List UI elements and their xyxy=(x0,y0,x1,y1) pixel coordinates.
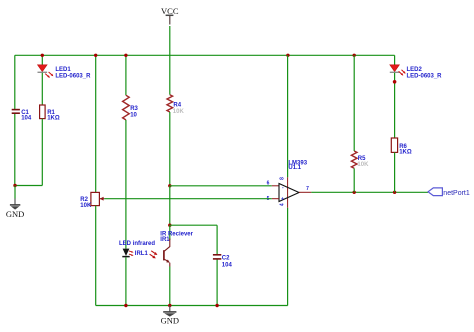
svg-text:4: 4 xyxy=(280,203,286,206)
wire column C1 branch xyxy=(14,55,16,185)
svg-text:GND: GND xyxy=(161,316,179,326)
junction rail C2 xyxy=(215,304,218,307)
transistor IR1 phototransistor xyxy=(150,232,194,267)
wire C2 branch xyxy=(216,225,218,305)
wire output xyxy=(311,191,428,193)
wire top rail VCC xyxy=(15,54,395,56)
svg-text:LED1: LED1 xyxy=(55,67,71,73)
wire R2 branch top xyxy=(95,55,97,192)
wire LED1 to R1 xyxy=(41,73,43,105)
wire LED2 branch top xyxy=(394,55,396,65)
wire IRL1 bottom xyxy=(125,257,127,305)
svg-text:VCC: VCC xyxy=(161,6,179,16)
capacitor C2 xyxy=(213,255,233,268)
wire R2 wiper to pin5 xyxy=(104,198,271,200)
svg-text:netPort1: netPort1 xyxy=(443,190,470,197)
svg-text:R3: R3 xyxy=(130,106,138,112)
wire R3 to IRL1 xyxy=(125,120,127,249)
svg-text:IRL1: IRL1 xyxy=(135,251,149,257)
svg-text:10: 10 xyxy=(130,113,137,119)
resistor R5 xyxy=(351,151,369,168)
svg-text:R5: R5 xyxy=(358,156,366,162)
svg-text:7: 7 xyxy=(306,186,309,192)
pin 5 stub xyxy=(272,198,279,200)
svg-text:U1.1: U1.1 xyxy=(288,165,301,171)
power flag VCC xyxy=(161,6,179,25)
svg-text:+: + xyxy=(281,197,284,203)
LED LED1 xyxy=(38,65,92,80)
svg-text:IR1: IR1 xyxy=(160,237,170,243)
wire op-amp pin6 xyxy=(170,185,272,187)
pin 7 stub xyxy=(299,191,311,193)
LED infrared IRL1 xyxy=(119,241,155,257)
junction rail op-amp power xyxy=(286,54,289,57)
svg-text:LED-0603_R: LED-0603_R xyxy=(55,74,91,80)
wire emitter to rail xyxy=(169,267,171,306)
wire R5 branch top xyxy=(353,55,355,151)
svg-text:R4: R4 xyxy=(173,102,181,108)
junction collector node xyxy=(168,224,171,227)
svg-text:LED2: LED2 xyxy=(407,67,423,73)
junction rail R5 xyxy=(353,54,356,57)
svg-text:104: 104 xyxy=(222,262,233,268)
wire LED1/R1 branch top xyxy=(41,55,43,65)
op-amp pins 8 and 4 xyxy=(287,177,289,208)
wire node to collector node xyxy=(169,186,171,225)
junction rail R2 xyxy=(94,54,97,57)
svg-text:GND: GND xyxy=(6,209,24,219)
resistor R4 xyxy=(167,95,184,115)
wire R3 branch top xyxy=(125,55,127,95)
ground GND left xyxy=(6,186,24,219)
svg-text:10K: 10K xyxy=(357,162,369,168)
wire R4 to node xyxy=(169,112,171,186)
wire R4 branch top xyxy=(169,55,171,94)
wire bottom rail xyxy=(96,305,288,307)
wire gnd horizontal xyxy=(15,185,43,187)
junction output R5 xyxy=(353,191,356,194)
wire VCC stem xyxy=(169,26,171,55)
wire R1 bottom xyxy=(41,119,43,186)
junction left gnd xyxy=(13,184,16,187)
net port netPort1 xyxy=(428,188,470,197)
potentiometer R2 xyxy=(80,192,104,209)
junction rail IRL1 xyxy=(124,304,127,307)
ground GND bottom xyxy=(161,306,179,326)
LED LED2 xyxy=(390,65,442,80)
svg-text:C2: C2 xyxy=(222,256,230,262)
svg-text:1KΩ: 1KΩ xyxy=(47,115,60,121)
wire R2 bottom xyxy=(95,206,97,306)
svg-text:10K: 10K xyxy=(80,203,92,209)
wire R6 bottom xyxy=(394,152,396,192)
svg-text:10K: 10K xyxy=(173,109,185,115)
wire collector stub xyxy=(169,225,171,240)
junction output R6 xyxy=(393,191,396,194)
junction LED2 pin xyxy=(393,80,397,84)
svg-text:6: 6 xyxy=(267,180,270,186)
svg-text:8: 8 xyxy=(280,177,286,180)
resistor R3 xyxy=(123,95,139,120)
wire LED2 to R6 xyxy=(394,73,396,138)
op-amp U1.1 LM393 xyxy=(267,160,310,206)
junction node pin6 xyxy=(168,184,171,187)
junction rail emitter xyxy=(168,304,171,307)
capacitor C1 xyxy=(12,110,32,122)
wire op-amp pin4 to rail xyxy=(287,208,289,306)
svg-text:104: 104 xyxy=(21,115,32,121)
resistor R1 xyxy=(40,105,60,121)
wire collector node horizontal xyxy=(170,224,217,226)
svg-text:LED infrared: LED infrared xyxy=(119,241,155,247)
svg-text:LED-0603_R: LED-0603_R xyxy=(407,74,443,80)
junction rail LED1 xyxy=(41,54,44,57)
svg-text:1KΩ: 1KΩ xyxy=(399,149,412,155)
pin 6 stub xyxy=(272,185,279,187)
wire op-amp power xyxy=(287,55,289,177)
wire R5 bottom xyxy=(353,168,355,192)
resistor R6 xyxy=(391,138,412,155)
junction rail R3 xyxy=(124,54,127,57)
